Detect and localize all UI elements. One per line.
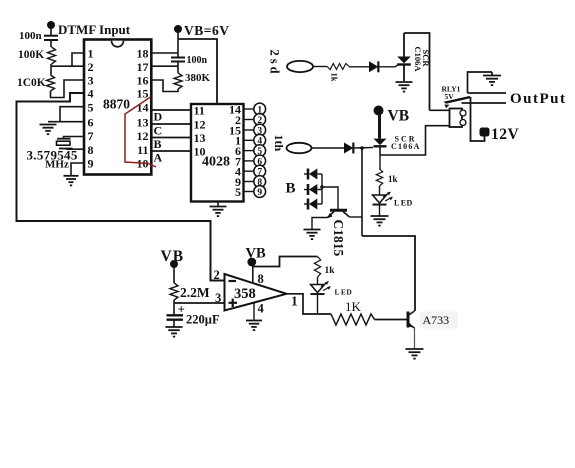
svg-text:8870: 8870 <box>103 97 130 112</box>
U2 pin 11 number <box>194 103 205 117</box>
output terminal 4 (circled) <box>254 134 266 146</box>
label SCR (rotated, SCR1) <box>421 50 431 68</box>
label VB (SCR2) <box>388 108 410 125</box>
ground top right <box>468 72 502 93</box>
label RLY1 <box>442 85 461 94</box>
svg-text:100K: 100K <box>18 49 44 61</box>
label C1815 (rotated) <box>331 220 346 257</box>
svg-text:B: B <box>154 137 162 151</box>
wire R6 to C3 <box>173 303 175 315</box>
wire R1 bottom junction <box>50 64 52 75</box>
svg-text:12V: 12V <box>491 126 520 143</box>
transistor Q1 C1815 <box>327 210 350 218</box>
U2 pin 1 number <box>235 134 241 148</box>
wire U2 output to terminal 6 <box>244 160 254 162</box>
LED1 <box>311 282 331 295</box>
svg-text:11: 11 <box>194 103 205 117</box>
op-amp U3 358 body <box>225 274 287 311</box>
svg-text:VB: VB <box>246 246 266 262</box>
output terminal 2 (circled) <box>254 114 266 126</box>
wire U2 output to terminal 1 <box>244 108 254 110</box>
svg-text:220µF: 220µF <box>186 313 220 327</box>
wire R8 to Q2 base <box>375 319 407 321</box>
label DTMF Input <box>58 22 131 37</box>
relay RLY1 coil <box>450 109 467 128</box>
svg-text:MHz: MHz <box>45 159 69 171</box>
U1 pin 13 number <box>137 115 149 129</box>
label 12V <box>491 126 520 143</box>
label VB=6V <box>184 23 229 38</box>
svg-text:C: C <box>154 124 163 138</box>
wire data bus C (U1 to U2) <box>151 123 191 125</box>
wire relay NO to output bottom <box>462 102 507 104</box>
label U3 pin8 <box>258 272 264 286</box>
U1 pin 12 number <box>137 129 149 143</box>
capacitor C2 100n <box>171 58 185 62</box>
wire SCR1 cathode <box>403 65 405 81</box>
crystal X1 <box>57 139 73 149</box>
wire pin4 long feedback net <box>17 93 225 281</box>
wire U1 pin9 to ground <box>71 163 84 175</box>
LED2 <box>373 192 393 205</box>
wire SCR2 cathode to R5 <box>379 155 381 169</box>
svg-text:4: 4 <box>88 87 94 101</box>
resistor R3 380K <box>174 73 182 89</box>
wire pin1 stub <box>72 53 84 66</box>
U1 pin 1 number <box>88 47 94 61</box>
resistor R2 1C0K <box>47 75 55 91</box>
svg-text:2.2M: 2.2M <box>180 285 210 300</box>
U1 pin 14 number <box>137 100 149 114</box>
SCR1 gate lead <box>395 65 399 67</box>
svg-text:1: 1 <box>291 294 298 309</box>
label 2.2M <box>180 285 210 300</box>
wire U2 output to terminal 2 <box>244 119 254 121</box>
output terminal 5 (circled) <box>254 145 266 157</box>
wire Q1 emitter to ground <box>312 218 328 230</box>
diode D2 (B group) <box>304 184 322 195</box>
resistor R1 100K <box>48 47 56 64</box>
svg-text:18: 18 <box>137 47 149 61</box>
svg-text:16: 16 <box>137 74 149 88</box>
wire relay common to 12V <box>471 97 485 141</box>
node SCR2 gate junction <box>360 146 364 150</box>
svg-text:A733: A733 <box>423 313 450 327</box>
svg-text:11: 11 <box>137 143 148 157</box>
svg-text:A: A <box>154 151 163 165</box>
svg-text:9: 9 <box>88 157 94 171</box>
wire C3 to ground <box>173 320 175 327</box>
wire U1 pin5/6 to ground <box>48 107 84 122</box>
svg-text:2: 2 <box>88 60 94 74</box>
wire D5 to SCR2 gate node <box>353 147 373 150</box>
svg-text:L ED: L ED <box>394 199 413 208</box>
IC U2 4028 body <box>191 104 244 202</box>
U1 pin 15 number <box>137 87 149 101</box>
svg-text:8: 8 <box>258 272 264 286</box>
U2 pin 14 number <box>229 102 241 116</box>
wire U1 pin7 to crystal <box>64 137 85 139</box>
U1 pin 10 number <box>137 157 149 171</box>
ground at C3 <box>166 327 183 337</box>
wire SCR1 anode to relay coil <box>404 33 430 110</box>
label U3 pin2 <box>214 268 220 282</box>
ground at LED2 <box>371 216 389 226</box>
wire U2 output to terminal 4 <box>244 139 254 141</box>
label B <box>286 181 296 197</box>
VB terminal dot (2.2M) <box>170 260 178 268</box>
wire R4 to D4 <box>349 66 369 68</box>
U3 plus input mark <box>229 299 238 307</box>
svg-text:1th: 1th <box>272 135 286 152</box>
svg-text:100n: 100n <box>19 30 42 42</box>
SCR1 C106A <box>397 57 411 65</box>
wire crystal to U1 pin8 <box>67 148 84 151</box>
wire VB pin8 branch to R7 <box>252 257 318 267</box>
label 1k (R4, rotated) <box>330 73 340 82</box>
svg-text:1k: 1k <box>388 174 398 184</box>
wire VB to R6 <box>173 266 175 283</box>
VB terminal dot (SCR2) <box>374 106 384 116</box>
svg-text:6: 6 <box>88 115 94 129</box>
label MHz <box>45 159 69 171</box>
svg-text:13: 13 <box>137 115 149 129</box>
svg-text:15: 15 <box>137 87 149 101</box>
svg-text:C106A: C106A <box>391 142 421 151</box>
label bus B <box>154 137 162 151</box>
U2 pin 10 number <box>194 144 206 158</box>
svg-text:9: 9 <box>257 188 262 198</box>
diode D4 <box>369 61 378 72</box>
wire D4 to SCR1 gate <box>378 66 395 68</box>
VB terminal dot (U3 pin8) <box>247 258 256 267</box>
wire data bus B (U1 to U2) <box>151 137 191 139</box>
wire C2 to R3 <box>177 62 179 74</box>
input terminal dot (DTMF Input) <box>47 21 55 29</box>
wire pin2 net <box>51 65 85 67</box>
wire R2 bottom to pin3 <box>51 80 85 98</box>
svg-text:OutPut: OutPut <box>510 91 567 107</box>
label 1k (R7) <box>325 266 336 276</box>
wire relay NC to output top <box>468 92 507 94</box>
svg-text:B: B <box>286 181 296 197</box>
IC U1 8870 body <box>84 40 151 175</box>
label 100n (C2) <box>187 55 208 66</box>
ground at U3 pin4 <box>246 321 262 331</box>
svg-text:5V: 5V <box>445 92 455 101</box>
wire R6 to U3 pin3 <box>174 300 225 303</box>
label 100n <box>19 30 42 42</box>
wire Q2 emitter to ground <box>414 328 416 349</box>
U2 pin 2 number <box>235 113 241 127</box>
12V terminal dot <box>480 128 490 137</box>
svg-text:5: 5 <box>88 100 94 114</box>
loop terminal 2sd (ellipse) <box>287 61 313 72</box>
resistor R8 1K <box>331 314 375 325</box>
label SCR (SCR2) <box>395 135 417 144</box>
svg-text:C106A: C106A <box>413 47 423 73</box>
U1 pin 9 number <box>88 157 94 171</box>
U1 pin 3 number <box>88 74 94 88</box>
wire LED1 to output net <box>317 294 319 314</box>
wire coil top lead <box>430 109 450 111</box>
output terminal 6 (circled) <box>254 155 266 167</box>
label 100K <box>18 49 44 61</box>
wire 2sd ellipse to R4 <box>313 66 328 68</box>
label 1k (R5) <box>388 174 398 184</box>
SCR2 C106A <box>374 139 387 147</box>
label LED (LED1) <box>335 288 353 297</box>
U1 pin 5 number <box>88 100 94 114</box>
svg-text:12: 12 <box>137 129 149 143</box>
red strap U1 pin15 to pin10 <box>125 97 156 167</box>
wire VB vertical <box>177 31 179 58</box>
wire U1 pin17 junction <box>151 65 178 67</box>
svg-text:VB: VB <box>388 108 410 125</box>
ground at U1 pin9 <box>64 176 79 186</box>
VB=6V terminal dot <box>174 25 182 33</box>
svg-text:2: 2 <box>214 268 220 282</box>
U2 pin 6 number <box>235 144 241 158</box>
wire B junction to Q1 base <box>322 187 338 210</box>
label LED (LED2) <box>394 199 413 208</box>
wire SCR1 anode up <box>403 33 405 57</box>
wire U2 output to terminal 5 <box>244 150 254 152</box>
wire U2 output to terminal 8 <box>244 181 254 183</box>
U2 pin 4 number <box>235 165 241 179</box>
svg-text:VB=6V: VB=6V <box>184 23 229 38</box>
wire B diode common <box>321 174 323 204</box>
U1 pin 17 number <box>137 60 149 74</box>
svg-text:D: D <box>154 110 163 124</box>
output terminal 8 (circled) <box>254 176 266 188</box>
diode D1 (B group) <box>304 169 322 180</box>
relay switch blade <box>444 96 471 108</box>
svg-text:3: 3 <box>215 291 221 305</box>
U2 pin 13 number <box>194 131 206 145</box>
label C106A (rotated, SCR1) <box>413 47 423 73</box>
svg-text:17: 17 <box>137 60 149 74</box>
label bus D <box>154 110 163 124</box>
label 1th (rotated) <box>272 135 286 152</box>
wire U2 ground stem <box>217 202 219 207</box>
svg-text:13: 13 <box>194 131 206 145</box>
U1 pin 2 number <box>88 60 94 74</box>
resistor R6 2.2M <box>170 283 178 300</box>
U2 pin 5 number <box>235 185 241 199</box>
ground at Q2 <box>406 349 424 359</box>
svg-text:4: 4 <box>258 302 265 316</box>
wire data bus A (U1 to U2) <box>151 150 191 152</box>
wire gate net to Q2 collector <box>362 236 415 311</box>
svg-text:1C0K: 1C0K <box>17 77 46 89</box>
ground below U2 <box>210 207 227 217</box>
label U3 pin3 <box>215 291 221 305</box>
wire VB to SCR2 anode <box>378 114 381 139</box>
ground at Q1 emitter <box>304 230 321 240</box>
label 5V <box>445 92 455 101</box>
label 1C0K <box>17 77 46 89</box>
wire SCR2 gate net vertical <box>361 148 363 236</box>
ground at SCR1 <box>396 82 413 92</box>
svg-text:12: 12 <box>194 117 206 131</box>
svg-text:7: 7 <box>88 129 94 143</box>
label U3 pin4 <box>258 302 265 316</box>
U2 pin 15 number <box>229 123 241 137</box>
diode D5 <box>344 143 353 154</box>
label 3.579545 <box>27 148 78 163</box>
wire input dot to C1 <box>50 27 52 35</box>
svg-text:4028: 4028 <box>202 155 230 170</box>
wire U1 pin16 to R3 bottom <box>151 80 178 92</box>
loop terminal 1th (ellipse) <box>287 143 312 153</box>
wire U2 output to terminal 7 <box>244 170 254 172</box>
wire LED2 to ground <box>379 205 381 216</box>
label 4028 <box>202 155 230 170</box>
svg-text:380K: 380K <box>185 72 211 84</box>
wire VB branch to U2 VDD <box>178 39 217 104</box>
label VB (U3 left) <box>161 248 185 265</box>
U1 pin 16 number <box>137 74 149 88</box>
U2 pin 9 number <box>235 175 241 189</box>
wire data bus D (U1 to U2) <box>151 109 191 111</box>
wire U1 pin18 to VB <box>151 52 178 54</box>
output terminal 9 (circled) <box>254 186 266 198</box>
label 2sd (rotated) <box>268 50 282 77</box>
wire SCR2 cathode to relay coil <box>380 126 450 155</box>
svg-text:2sd: 2sd <box>268 50 282 77</box>
wire Q1 collector to gate net <box>350 216 363 218</box>
capacitor C1 100n <box>44 36 58 40</box>
label A733 <box>420 312 458 329</box>
svg-text:1: 1 <box>88 47 94 61</box>
label 220µF <box>186 313 220 327</box>
label bus C <box>154 124 163 138</box>
U1 pin 11 number <box>137 143 148 157</box>
wire 1th ellipse to D5 <box>311 147 344 149</box>
wire U3 pin4 to ground <box>253 302 255 320</box>
label 380K <box>185 72 211 84</box>
U1 pin 8 number <box>88 143 94 157</box>
svg-text:10: 10 <box>194 144 206 158</box>
svg-text:1K: 1K <box>345 299 362 314</box>
U2 pin 12 number <box>194 117 206 131</box>
U1 pin 4 number <box>88 87 94 101</box>
output terminal 3 (circled) <box>254 124 266 136</box>
output terminal 7 (circled) <box>254 165 266 177</box>
U1 pin 6 number <box>88 115 94 129</box>
wire U3 pin8 <box>252 265 254 284</box>
svg-text:L ED: L ED <box>335 288 353 297</box>
resistor R4 1k <box>327 64 349 70</box>
wire U3 pin1 output <box>287 294 331 314</box>
label C106A (SCR2) <box>391 142 421 151</box>
label U3 pin1 <box>291 294 298 309</box>
node B junction <box>320 185 324 189</box>
resistor R7 1k <box>314 257 320 278</box>
wire SCR2 cathode down <box>379 147 381 156</box>
svg-text:1k: 1k <box>330 73 340 82</box>
label 8870 <box>103 97 130 112</box>
diode D3 (B group) <box>304 199 322 210</box>
wire U2 output to terminal 3 <box>244 129 254 131</box>
wire U2 output to terminal 9 <box>244 191 254 193</box>
svg-text:100n: 100n <box>187 55 208 66</box>
ground at U1 pin6 <box>40 125 57 135</box>
U3 minus input mark <box>229 280 237 282</box>
resistor R5 1k <box>376 169 382 186</box>
svg-text:5: 5 <box>235 185 241 199</box>
svg-text:1k: 1k <box>325 266 336 276</box>
label 358 <box>234 286 256 302</box>
svg-text:8: 8 <box>88 143 94 157</box>
label VB (U3 pin8) <box>246 246 266 262</box>
U1 pin 7 number <box>88 129 94 143</box>
label bus A <box>154 151 163 165</box>
capacitor C3 220uF (+) <box>167 302 185 320</box>
label OutPut <box>510 91 567 107</box>
svg-text:3: 3 <box>88 74 94 88</box>
svg-text:DTMF Input: DTMF Input <box>58 22 131 37</box>
svg-text:358: 358 <box>234 286 256 302</box>
svg-text:C1815: C1815 <box>331 220 346 257</box>
wire C1 to R1 <box>50 40 52 47</box>
output terminal 1 (circled) <box>254 103 266 115</box>
U1 pin 18 number <box>137 47 149 61</box>
U2 pin 7 number <box>235 154 241 168</box>
transistor Q2 A733 <box>408 311 415 328</box>
wire R7 to LED1 <box>317 277 319 285</box>
wire R5 to LED2 <box>379 186 381 195</box>
label 1K <box>345 299 362 314</box>
